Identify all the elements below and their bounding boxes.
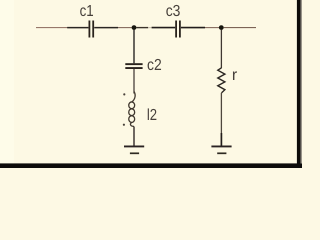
wire: C1 to node 1: [118, 27, 132, 29]
window outer edge right: [301, 0, 303, 163]
svg-text:c1: c1: [80, 3, 94, 20]
capacitor C3: [152, 21, 205, 38]
inductor polarity dot bottom: [123, 124, 125, 126]
window border bottom: [0, 163, 302, 168]
ground 2: [211, 146, 231, 153]
page edge lighter strip: [0, 0, 14, 164]
resistor R: [218, 68, 225, 93]
capacitor C1: [67, 21, 118, 38]
capacitor C2: [125, 63, 142, 69]
inductor polarity dot top: [123, 93, 125, 95]
wire: node 1 down to C2: [133, 30, 135, 64]
svg-text:l2: l2: [147, 107, 157, 124]
window border right: [297, 0, 301, 168]
schematic canvas background: [0, 0, 302, 168]
node 1 junction dot: [132, 25, 137, 30]
wire: input stub left: [36, 27, 68, 29]
wire: node 1 to C3: [136, 27, 148, 29]
svg-text:c2: c2: [147, 57, 162, 74]
wire: C3 to node 2: [205, 27, 219, 29]
svg-text:r: r: [232, 67, 238, 84]
node 2 junction dot: [219, 25, 224, 30]
wire: node 2 down to R: [220, 30, 222, 68]
svg-text:c3: c3: [166, 3, 181, 20]
wire: output stub right: [224, 27, 256, 29]
wire: C2 to L2: [133, 69, 135, 94]
wire: R to ground 2 (lower): [220, 133, 222, 146]
wire: L2 to ground 1: [133, 127, 135, 146]
wire joint (faint): [148, 27, 151, 29]
inductor L2: [129, 92, 135, 127]
wire: R to ground 2 (upper): [220, 93, 222, 133]
ground 1: [124, 146, 144, 153]
